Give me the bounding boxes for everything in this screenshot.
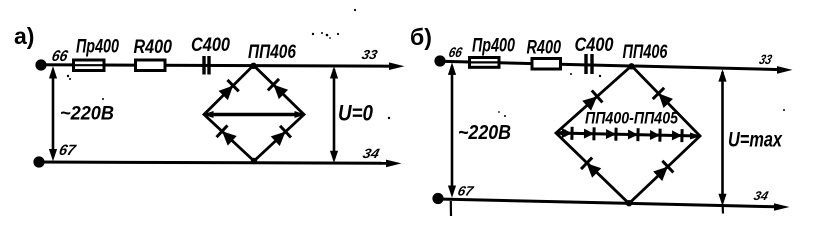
bridge middle line with arrowheads (right)	[555, 130, 701, 140]
terminal 34 label (right)	[752, 189, 769, 203]
diode chain D7	[606, 127, 616, 140]
diode D11 top-left (right bridge)	[581, 90, 602, 111]
wire top (left circuit)	[41, 62, 405, 70]
capacitor value label C400	[191, 35, 230, 56]
bridge middle line with arrowheads (left)	[203, 111, 305, 118]
node 67 terminal dot (left circuit)	[33, 156, 44, 167]
svg-text:ПП406: ПП406	[623, 42, 668, 63]
wire overshoot tick below bottom wire at U=max arrow	[722, 207, 724, 214]
node 67 label (right)	[456, 184, 476, 199]
svg-text:С400: С400	[575, 35, 614, 56]
measurement arrow U=max (right circuit)	[718, 69, 726, 206]
junction blob bottom vertex (left bridge)	[251, 158, 257, 164]
svg-text:U=0: U=0	[338, 101, 374, 126]
diode D4 bottom-right (left bridge)	[270, 126, 291, 147]
label ~220V (left)	[60, 103, 114, 125]
diode bridge diamond (right circuit)	[556, 66, 700, 204]
diode chain D6	[584, 127, 594, 140]
diode D13 bottom-left (right bridge)	[581, 158, 602, 179]
node 66 terminal dot (right circuit)	[434, 55, 445, 66]
diode chain D5 (right bridge middle)	[562, 127, 572, 140]
capacitor C400 (right circuit)	[586, 54, 592, 74]
fuse value label Пр400	[76, 37, 119, 58]
resistor R400 (left circuit)	[136, 60, 166, 71]
svg-text:а): а)	[14, 23, 34, 49]
diode D3 bottom-left (left bridge)	[217, 125, 238, 146]
diode chain D10	[672, 129, 682, 142]
diode D1 top-left (left bridge)	[218, 80, 239, 101]
svg-text:~220В: ~220В	[458, 121, 511, 144]
resistor R400 (right circuit)	[532, 59, 561, 70]
junction blob top vertex (left bridge)	[250, 63, 256, 69]
node 67 label	[57, 142, 78, 159]
resistor value label R400	[134, 37, 173, 58]
svg-text:R400: R400	[527, 38, 562, 59]
capacitor C400 (left circuit)	[204, 56, 209, 75]
diode D12 top-right (right bridge)	[653, 88, 674, 109]
node 66 terminal dot (left circuit)	[35, 59, 46, 70]
svg-text:С400: С400	[191, 35, 230, 56]
svg-text:Пр400: Пр400	[76, 37, 119, 58]
diode bridge diamond (left circuit)	[204, 65, 304, 161]
svg-text:~220В: ~220В	[60, 103, 114, 125]
svg-text:ПП406: ПП406	[248, 42, 296, 63]
diode D2 top-right (left bridge)	[268, 79, 289, 100]
junction blob top vertex (right bridge)	[628, 63, 634, 69]
junction blob bottom vertex (right bridge)	[626, 200, 632, 206]
rectifier label ПП406 (left)	[248, 42, 296, 63]
wire bottom (left circuit)	[39, 160, 402, 168]
measurement arrow U=0 (left circuit)	[330, 66, 338, 163]
capacitor value label C400 (right)	[575, 35, 614, 56]
rectifier label ПП406 (right)	[623, 42, 668, 63]
label U=0	[338, 101, 374, 126]
wire overshoot tick below bottom wire at 220V arrow (right)	[450, 201, 452, 216]
resistor value label R400 (right)	[527, 38, 562, 59]
label b)	[410, 24, 432, 50]
voltage arrow ~220V (left circuit)	[49, 66, 57, 161]
wire bottom (right circuit)	[438, 199, 790, 211]
fuse Пр400 (left circuit)	[72, 60, 106, 71]
label ~220V (right)	[458, 121, 511, 144]
terminal 34 label (left)	[361, 146, 381, 161]
diode chain label ПП400-ПП405	[585, 110, 679, 128]
terminal 33 label (left)	[360, 47, 379, 62]
wire top (right circuit)	[440, 61, 793, 73]
scan noise specks	[67, 9, 785, 119]
svg-text:ПП400-ПП405: ПП400-ПП405	[585, 110, 679, 128]
diode chain D9	[650, 128, 660, 141]
svg-text:U=max: U=max	[728, 129, 783, 152]
label U=max	[728, 129, 783, 152]
label a)	[14, 23, 34, 49]
node 67 terminal dot (right circuit)	[432, 193, 443, 204]
diode D14 bottom-right (right bridge)	[652, 161, 673, 182]
fuse Пр400 (right circuit)	[468, 58, 501, 68]
fuse value label Пр400 (right)	[472, 36, 515, 57]
svg-text:R400: R400	[134, 37, 173, 58]
voltage arrow ~220V (right circuit)	[448, 62, 456, 197]
diode chain D8	[628, 128, 638, 141]
svg-text:Пр400: Пр400	[472, 36, 515, 57]
terminal 33 label (right)	[758, 52, 774, 67]
node 66 label (right)	[447, 44, 463, 60]
svg-text:б): б)	[410, 24, 432, 50]
node 66 label	[50, 48, 69, 65]
